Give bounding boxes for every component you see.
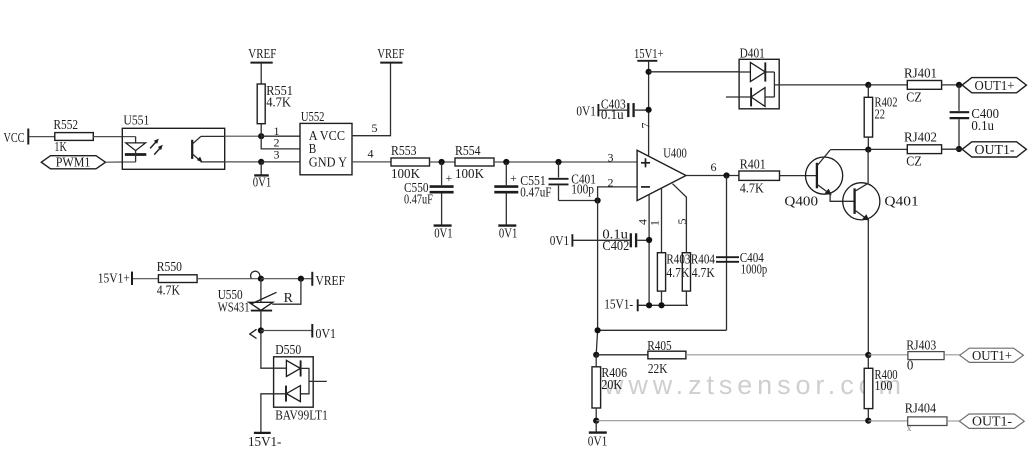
wire node to RJ402: [868, 148, 907, 150]
svg-text:5: 5: [372, 121, 378, 135]
node bottom R400 junction: [865, 418, 871, 424]
svg-text:RJ404: RJ404: [905, 401, 936, 416]
wire R550 to U550 node: [197, 278, 261, 280]
svg-text:CZ: CZ: [906, 90, 922, 105]
IC U552: [300, 110, 352, 175]
port 0V1 U550: [261, 324, 336, 342]
transistor Q400: [784, 150, 842, 209]
pin 6 label: [711, 160, 717, 174]
svg-text:15V1-: 15V1-: [604, 297, 633, 312]
wire node A to U552 pin1: [261, 135, 300, 137]
wire to R405: [596, 354, 648, 356]
wire 15V1+ down pin7: [648, 61, 650, 157]
label R403: [666, 252, 690, 281]
resistor R553: [391, 144, 430, 182]
wire node D to RJ403: [868, 354, 908, 356]
svg-text:100: 100: [875, 379, 893, 394]
U550 R pin wire: [272, 279, 301, 306]
transistor Q401: [843, 183, 919, 221]
wire 15V1- rail: [638, 304, 688, 306]
wire node to VREF: [261, 278, 312, 280]
wire Q401 emitter down: [867, 219, 869, 355]
svg-text:0V1: 0V1: [434, 227, 453, 242]
wire VCC to R552: [29, 136, 55, 138]
node A junction: [258, 133, 264, 139]
svg-text:C402: C402: [602, 239, 629, 254]
svg-text:R: R: [284, 291, 294, 306]
node inv/C404 junction: [595, 327, 601, 333]
svg-text:4.7K: 4.7K: [157, 283, 180, 298]
pin 5 label: [372, 121, 378, 135]
anode arrow mark: [250, 329, 257, 338]
port OUT1+ top: [962, 78, 1026, 94]
svg-text:4.7K: 4.7K: [266, 95, 291, 110]
svg-text:VREF: VREF: [316, 274, 346, 289]
port 0V1 C402: [550, 234, 573, 249]
resistor R551: [257, 84, 293, 124]
net label 15V1+ top: [634, 47, 664, 62]
net label VREF top-mid: [377, 47, 404, 63]
port PWM1: [41, 155, 105, 170]
node D junction: [865, 352, 871, 358]
svg-text:5: 5: [675, 219, 689, 225]
svg-text:Q400: Q400: [784, 194, 818, 209]
resistor R550: [157, 260, 197, 299]
port VCC: [4, 129, 29, 147]
ground 0V1 under C550: [434, 226, 453, 242]
svg-text:RJ401: RJ401: [904, 66, 937, 81]
wire R404 to rail: [685, 291, 687, 305]
svg-text:BAV99LT1: BAV99LT1: [275, 408, 328, 423]
wire RJ403 to OUT1+: [944, 354, 960, 356]
svg-text:OUT1+: OUT1+: [975, 79, 1015, 94]
wire node A jog to U552 pin2: [261, 136, 300, 149]
wire U552 pin5 to VREF: [352, 63, 391, 136]
pin 5 label rot: [675, 219, 689, 225]
watermark www.ztsensor.com: [603, 370, 901, 400]
node rail R403: [658, 302, 664, 308]
resistor R402: [864, 85, 897, 150]
node R554/C551 junction: [503, 159, 509, 165]
wire inv net down: [596, 201, 597, 355]
svg-text:1000p: 1000p: [741, 262, 768, 277]
node 15V1+ junction: [646, 69, 652, 75]
svg-text:15V1+: 15V1+: [634, 47, 664, 62]
svg-text:VCC: VCC: [4, 131, 25, 146]
wire collector rail: [830, 149, 868, 151]
label R404: [691, 252, 715, 281]
svg-text:R550: R550: [157, 260, 182, 275]
svg-text:7: 7: [639, 123, 653, 129]
node U550 cathode junction: [258, 276, 264, 282]
D550 bottom diode: [286, 386, 300, 402]
svg-text:+: +: [510, 171, 517, 185]
wire node B to RJ401: [868, 84, 907, 86]
resistor R405: [647, 339, 686, 377]
ground 0V1 under C551: [498, 226, 517, 242]
U551 phototransistor: [192, 136, 225, 162]
net label 15V1+ left: [98, 272, 132, 287]
wire RJ401 to OUT1+: [942, 84, 963, 86]
svg-text:R401: R401: [740, 157, 766, 172]
port OUT1- top: [962, 142, 1026, 158]
svg-text:0.47uF: 0.47uF: [404, 193, 433, 208]
node U550 anode junction: [258, 327, 264, 333]
wire R405 to node D: [686, 354, 868, 356]
D401 right bar: [773, 72, 775, 97]
pin 3 label: [274, 147, 280, 161]
svg-text:1: 1: [648, 220, 662, 226]
svg-text:0V1: 0V1: [316, 327, 337, 342]
node rail R402: [865, 147, 871, 153]
node bottom junction: [258, 159, 264, 165]
diode pair D550: [274, 343, 328, 423]
svg-text:100K: 100K: [391, 167, 420, 182]
svg-text:4: 4: [368, 147, 374, 161]
wire 15V1+ to D401: [649, 71, 740, 73]
wire opamp output: [686, 175, 739, 177]
wire Q401 collector up: [867, 150, 869, 184]
svg-text:R405: R405: [647, 339, 672, 354]
wire RJ404 to OUT1-: [947, 420, 959, 422]
svg-text:100p: 100p: [571, 183, 594, 198]
svg-text:x: x: [907, 423, 912, 433]
wire U551 to node A: [225, 135, 262, 137]
resistor R406: [592, 355, 627, 421]
wire pin4 down: [648, 194, 650, 305]
resistor R554: [455, 144, 494, 182]
node rail pin4: [646, 302, 652, 308]
optocoupler U551: [122, 113, 224, 169]
svg-text:15V1+: 15V1+: [98, 272, 130, 287]
wire pin1 to R403: [661, 188, 663, 253]
pin 1 label rot: [648, 220, 662, 226]
op-amp U400: [637, 147, 687, 201]
capacitor C401: [549, 162, 597, 201]
node R pin junction: [298, 276, 304, 282]
wire VREF to R551: [260, 63, 262, 84]
capacitor C402: [573, 227, 649, 254]
svg-text:VREF: VREF: [248, 47, 276, 62]
wire bottom net to U552 pin3: [261, 161, 300, 163]
resistor R400: [864, 355, 897, 421]
wire bottom net: [596, 420, 868, 422]
port VREF left: [312, 272, 345, 289]
capacitor C404: [716, 176, 767, 331]
svg-text:R552: R552: [54, 118, 79, 133]
ground 0V1 under U551: [253, 162, 271, 190]
pin 3 label opamp: [608, 151, 614, 165]
svg-text:22K: 22K: [648, 362, 668, 377]
wire R553 to R554: [430, 161, 456, 163]
wire U551 to bottom net: [225, 161, 262, 163]
node output junction: [723, 172, 729, 178]
port OUT1- bottom: [959, 414, 1024, 430]
wire anode to D550 top: [261, 331, 287, 369]
node R405 left junction: [593, 352, 599, 358]
capacitor C551: [494, 162, 551, 225]
svg-text:RJ402: RJ402: [904, 131, 937, 146]
svg-text:RJ403: RJ403: [906, 338, 936, 353]
D550 connector bar: [300, 368, 309, 393]
wire C401 to inv net: [559, 200, 598, 202]
wire R552 to U551: [93, 136, 135, 138]
wire pin5 to R404: [673, 184, 687, 253]
node C400 bottom: [956, 146, 962, 152]
svg-text:0V1: 0V1: [550, 234, 570, 249]
wire D401 to node B: [774, 84, 868, 86]
pin 2 label opamp: [608, 175, 614, 189]
svg-text:+: +: [446, 171, 453, 185]
svg-text:4.7K: 4.7K: [740, 182, 764, 197]
wire node to RJ404: [868, 420, 907, 422]
resistor RJ402: [904, 131, 942, 170]
resistor R552: [54, 118, 94, 155]
port 0V1 C403: [576, 104, 598, 119]
svg-text:U400: U400: [663, 147, 687, 162]
svg-text:0V1: 0V1: [576, 104, 596, 119]
svg-text:0: 0: [907, 359, 914, 374]
wire RJ402 to OUT1-: [942, 148, 963, 150]
node bottom-left junction: [593, 418, 599, 424]
D401 bottom diode: [726, 88, 775, 107]
wire U552 pin4 to R553: [352, 161, 391, 163]
resistor RJ403: [906, 338, 944, 373]
pin 4 label: [368, 147, 374, 161]
wire Q400 emitter to Q401 base: [830, 194, 855, 202]
svg-text:U551: U551: [123, 113, 149, 128]
wire inv input: [598, 187, 638, 201]
resistor R401: [739, 157, 780, 196]
wire D550 bottom to 15V1-: [261, 394, 286, 433]
wire 15V1+ to R550: [133, 278, 158, 280]
capacitor C550: [404, 162, 454, 225]
svg-text:R553: R553: [391, 144, 417, 159]
svg-text:0.47uF: 0.47uF: [520, 185, 551, 200]
svg-text:Q401: Q401: [884, 194, 918, 209]
svg-text:U552: U552: [301, 110, 325, 125]
svg-text:OUT1-: OUT1-: [972, 415, 1012, 430]
svg-text:6: 6: [711, 160, 717, 174]
svg-text:3: 3: [274, 147, 280, 161]
wire hop arc: [251, 271, 260, 278]
svg-text:VREF: VREF: [377, 47, 404, 62]
node C403 junction: [646, 107, 652, 113]
diode pair D401: [739, 46, 779, 108]
svg-text:WS431: WS431: [218, 300, 250, 315]
capacitor C400: [950, 85, 999, 149]
net label 15V1- bottom: [248, 433, 282, 450]
svg-text:GND Y: GND Y: [309, 156, 347, 171]
svg-text:D550: D550: [275, 343, 301, 358]
svg-text:R554: R554: [455, 144, 481, 159]
svg-text:22: 22: [875, 108, 886, 123]
svg-text:0.1u: 0.1u: [971, 119, 994, 134]
pin 1 label: [274, 124, 280, 138]
node C402 junction: [646, 237, 652, 243]
wire R551 to node A: [260, 124, 262, 137]
capacitor C403: [599, 97, 649, 123]
node B junction: [865, 82, 871, 88]
U551 light arrows: [150, 139, 163, 155]
svg-text:0V1: 0V1: [253, 175, 271, 190]
node inv net junction: [595, 197, 601, 203]
svg-text:20K: 20K: [601, 378, 622, 393]
shunt ref U550 WS431: [218, 279, 277, 331]
svg-text:CZ: CZ: [906, 155, 922, 170]
svg-text:D401: D401: [740, 46, 765, 61]
node R553/C550 junction: [439, 159, 445, 165]
wire R554 to opamp: [494, 161, 637, 163]
svg-text:3: 3: [608, 151, 614, 165]
wire C404 to inv net: [598, 329, 727, 331]
U551 LED: [125, 137, 146, 162]
svg-text:0.1u: 0.1u: [601, 108, 624, 123]
port OUT1+ bottom: [960, 348, 1024, 364]
D550 output stub: [309, 380, 327, 382]
wire R403 to rail: [661, 291, 663, 305]
svg-text:OUT1-: OUT1-: [975, 143, 1015, 158]
D550 top diode: [286, 360, 300, 376]
resistor R403: [657, 253, 665, 291]
svg-text:4.7K: 4.7K: [692, 266, 715, 281]
resistor RJ404: [905, 401, 947, 433]
svg-text:PWM1: PWM1: [56, 155, 91, 170]
wire R401 to Q400: [780, 175, 817, 177]
ground 0V1 bottom: [588, 421, 608, 450]
D401 top diode: [739, 62, 774, 81]
node C401 top junction: [555, 159, 561, 165]
svg-text:0V1: 0V1: [499, 227, 518, 242]
svg-text:4.7K: 4.7K: [666, 266, 689, 281]
resistor R404: [682, 253, 690, 291]
svg-text:100K: 100K: [455, 167, 484, 182]
svg-text:0V1: 0V1: [588, 434, 608, 449]
resistor RJ401: [904, 66, 942, 105]
pin 4 label: [636, 219, 650, 225]
node C400 top: [956, 82, 962, 88]
net label 15V1- mid: [604, 297, 638, 312]
svg-text:1K: 1K: [54, 140, 66, 155]
pin 2 label: [274, 135, 280, 149]
svg-text:15V1-: 15V1-: [248, 435, 282, 450]
pin 7 label: [639, 123, 653, 129]
net label VREF top-left: [248, 47, 276, 63]
wire PWM1 to U551: [106, 161, 136, 163]
svg-text:OUT1+: OUT1+: [972, 349, 1012, 364]
